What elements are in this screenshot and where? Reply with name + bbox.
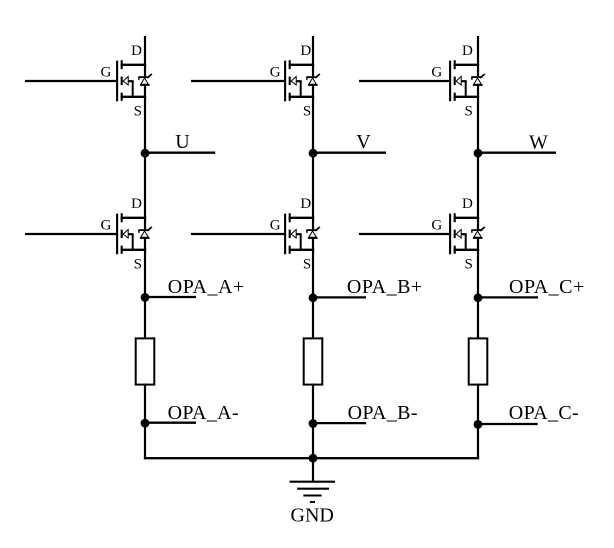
ground symbol <box>290 482 336 502</box>
wire: OPA_C- sense tap <box>478 423 538 425</box>
wire: phase output W <box>478 152 556 154</box>
wire: gate lead of Q6 (W low-side) <box>359 233 451 235</box>
node W junction dot <box>474 149 483 158</box>
node OPA_A- junction dot <box>141 419 150 428</box>
svg-text:G: G <box>101 64 112 80</box>
svg-text:S: S <box>134 256 142 272</box>
svg-text:D: D <box>300 43 311 59</box>
svg-text:OPA_B+: OPA_B+ <box>347 276 423 298</box>
node OPA_B+ junction dot <box>309 293 318 302</box>
wire: gate lead of Q4 (V low-side) <box>191 233 286 235</box>
svg-text:S: S <box>464 103 472 119</box>
wire: OPA_A- sense tap <box>145 422 196 424</box>
body diode of Q6 (TVS/zener style) <box>471 227 485 238</box>
wire: W rail from resistor RC to ground bus <box>477 384 479 460</box>
svg-text:D: D <box>131 196 142 212</box>
wire: U rail top segment (drain supply) <box>144 36 146 77</box>
svg-text:S: S <box>303 103 311 119</box>
node U junction dot <box>141 149 150 158</box>
resistor RA (phase U shunt) <box>136 338 155 384</box>
transistor Q5 (W-phase high-side NMOS) <box>450 60 479 101</box>
node OPA_C- junction dot <box>474 420 483 429</box>
node ground bus junction dot <box>309 454 318 463</box>
wire: phase output U <box>145 152 215 154</box>
wire: phase output V <box>313 152 386 154</box>
wire: V rail between Q3 and Q4 through node V <box>312 85 314 230</box>
svg-text:G: G <box>270 64 281 80</box>
svg-text:OPA_A-: OPA_A- <box>168 402 239 424</box>
transistor Q2 (U-phase low-side NMOS) <box>117 213 146 254</box>
body diode of Q1 (TVS/zener style) <box>138 74 152 85</box>
transistor Q1 (U-phase high-side NMOS) <box>117 60 146 101</box>
svg-text:OPA_B-: OPA_B- <box>348 402 418 424</box>
svg-text:S: S <box>464 256 472 272</box>
svg-text:V: V <box>356 131 371 153</box>
body diode of Q4 (TVS/zener style) <box>306 227 320 238</box>
svg-text:S: S <box>303 256 311 272</box>
resistor RC (phase W shunt) <box>469 338 488 384</box>
wire: V rail from resistor RB to ground bus <box>312 384 314 460</box>
svg-text:D: D <box>462 43 473 59</box>
wire: OPA_A+ sense tap <box>145 296 196 298</box>
svg-text:G: G <box>431 64 442 80</box>
transistor Q4 (V-phase low-side NMOS) <box>285 213 314 254</box>
wire: OPA_C+ sense tap <box>478 296 538 298</box>
node OPA_B- junction dot <box>309 419 318 428</box>
node OPA_A+ junction dot <box>141 293 150 302</box>
body diode of Q5 (TVS/zener style) <box>471 74 485 85</box>
resistor RB (phase V shunt) <box>304 338 323 384</box>
wire: U rail from resistor RA to ground bus <box>144 384 146 460</box>
wire: U rail between Q1 and Q2 through node U <box>144 85 146 230</box>
wire: W rail from Q6 source to shunt resistor <box>477 238 479 339</box>
node V junction dot <box>309 149 318 158</box>
transistor Q6 (W-phase low-side NMOS) <box>450 213 479 254</box>
wire: gate lead of Q5 (W high-side) <box>359 80 451 82</box>
svg-text:G: G <box>431 217 442 233</box>
svg-text:D: D <box>462 196 473 212</box>
svg-text:D: D <box>131 43 142 59</box>
svg-text:OPA_C+: OPA_C+ <box>509 276 585 298</box>
wire: OPA_B+ sense tap <box>313 296 366 298</box>
svg-text:D: D <box>300 196 311 212</box>
wire: W rail between Q5 and Q6 through node W <box>477 85 479 230</box>
body diode of Q3 (TVS/zener style) <box>306 74 320 85</box>
wire: OPA_B- sense tap <box>313 422 366 424</box>
wire: gate lead of Q2 (U low-side) <box>25 233 118 235</box>
wire: V rail top segment (drain supply) <box>312 36 314 77</box>
wire: U rail from Q2 source to shunt resistor <box>144 238 146 339</box>
node OPA_C+ junction dot <box>474 293 483 302</box>
wire: V rail from Q4 source to shunt resistor <box>312 238 314 339</box>
svg-text:S: S <box>134 103 142 119</box>
svg-text:OPA_C-: OPA_C- <box>509 402 579 424</box>
svg-text:OPA_A+: OPA_A+ <box>168 276 245 298</box>
wire: stub from bus to ground symbol <box>312 458 314 482</box>
svg-text:G: G <box>270 217 281 233</box>
svg-text:W: W <box>529 131 548 153</box>
body diode of Q2 (TVS/zener style) <box>138 227 152 238</box>
wire: W rail top segment (drain supply) <box>477 36 479 77</box>
transistor Q3 (V-phase high-side NMOS) <box>285 60 314 101</box>
wire: ground bus <box>144 457 479 459</box>
svg-text:U: U <box>175 131 190 153</box>
svg-text:GND: GND <box>291 505 334 527</box>
wire: gate lead of Q1 (U high-side) <box>25 80 118 82</box>
wire: gate lead of Q3 (V high-side) <box>191 80 286 82</box>
svg-text:G: G <box>101 217 112 233</box>
